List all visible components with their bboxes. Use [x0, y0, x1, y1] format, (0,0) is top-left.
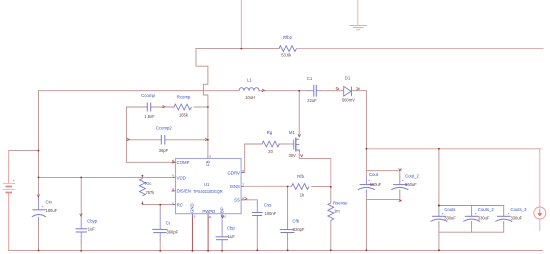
- svg-text:560uF: 560uF: [370, 182, 382, 187]
- svg-text:+: +: [442, 212, 444, 216]
- svg-text:Rrc: Rrc: [145, 181, 153, 186]
- svg-text:Cout_2: Cout_2: [405, 174, 419, 179]
- svg-text:FB: FB: [205, 160, 210, 166]
- svg-text:360pF: 360pF: [167, 230, 179, 235]
- svg-text:C1: C1: [307, 76, 313, 81]
- svg-text:165k: 165k: [179, 113, 189, 118]
- svg-text:DIS/EN: DIS/EN: [177, 189, 191, 194]
- svg-text:20: 20: [268, 149, 273, 154]
- svg-text:SS: SS: [234, 198, 240, 203]
- svg-text:180uF: 180uF: [46, 208, 58, 213]
- svg-text:330uF: 330uF: [444, 215, 456, 220]
- svg-text:330uF: 330uF: [478, 215, 490, 220]
- svg-text:Rcomp: Rcomp: [177, 95, 191, 100]
- svg-text:D1: D1: [345, 75, 351, 80]
- svg-text:Couts_3: Couts_3: [511, 207, 528, 212]
- svg-text:Rfb: Rfb: [297, 174, 304, 179]
- svg-text:Couts: Couts: [444, 207, 455, 212]
- svg-text:22uF: 22uF: [307, 98, 317, 103]
- svg-text:RC: RC: [177, 203, 183, 208]
- svg-text:560uF: 560uF: [405, 182, 417, 187]
- svg-text:330uF: 330uF: [511, 215, 523, 220]
- svg-text:Rfb2: Rfb2: [283, 35, 293, 40]
- svg-text:TPS40210DGQR: TPS40210DGQR: [193, 189, 223, 194]
- svg-text:Cout: Cout: [369, 172, 379, 177]
- svg-text:+: +: [402, 179, 404, 183]
- svg-text:10uH: 10uH: [245, 95, 255, 100]
- svg-text:Ccomp: Ccomp: [141, 93, 155, 98]
- svg-text:GND: GND: [190, 203, 195, 213]
- svg-text:1uF: 1uF: [88, 226, 96, 231]
- svg-text:1m: 1m: [334, 209, 340, 214]
- svg-text:30V: 30V: [289, 153, 297, 158]
- svg-text:VDD: VDD: [177, 175, 186, 180]
- svg-text:Rg: Rg: [267, 130, 273, 135]
- svg-text:+: +: [42, 205, 44, 209]
- svg-text:Cbyp: Cbyp: [87, 219, 98, 224]
- svg-text:1.5nF: 1.5nF: [144, 114, 155, 119]
- svg-text:560mV: 560mV: [342, 98, 355, 103]
- svg-text:100nF: 100nF: [265, 211, 277, 216]
- svg-text:Cfb: Cfb: [292, 218, 299, 223]
- svg-text:+: +: [368, 178, 370, 182]
- svg-text:U1: U1: [204, 182, 210, 187]
- svg-text:+: +: [475, 212, 477, 216]
- svg-text:Cbp: Cbp: [227, 225, 235, 230]
- svg-text:820pF: 820pF: [293, 227, 305, 232]
- svg-text:Ccomp2: Ccomp2: [156, 126, 173, 131]
- svg-text:+: +: [507, 212, 509, 216]
- svg-text:11: 11: [209, 215, 212, 219]
- svg-text:M1: M1: [289, 130, 296, 135]
- svg-text:BP: BP: [219, 207, 224, 213]
- svg-text:36pF: 36pF: [159, 148, 169, 153]
- svg-text:GDRV: GDRV: [228, 170, 240, 175]
- svg-text:PWPD: PWPD: [202, 209, 215, 214]
- svg-text:Cin: Cin: [46, 200, 53, 205]
- svg-text:53.6k: 53.6k: [281, 53, 292, 58]
- svg-text:Rsense: Rsense: [333, 201, 348, 206]
- svg-text:COMP: COMP: [177, 160, 190, 165]
- svg-text:Css: Css: [264, 203, 271, 208]
- svg-text:L1: L1: [247, 78, 252, 83]
- svg-text:767k: 767k: [146, 190, 156, 195]
- svg-text:1uF: 1uF: [228, 234, 236, 239]
- svg-text:ISNS: ISNS: [230, 184, 240, 189]
- svg-text:Couts_2: Couts_2: [478, 207, 495, 212]
